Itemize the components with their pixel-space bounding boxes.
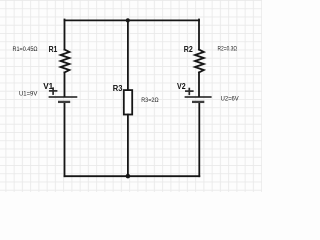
svg-text:U1=9V: U1=9V (19, 90, 38, 97)
wire middle vertical lower (127, 115, 129, 177)
wire left vertical lower (64, 103, 66, 176)
wire bottom horizontal (65, 175, 200, 177)
svg-text:R1=0.45Ω: R1=0.45Ω (13, 46, 38, 53)
svg-text:R2=0.3Ω: R2=0.3Ω (218, 45, 238, 52)
battery V2 plus sign (185, 88, 194, 95)
battery V1 (49, 97, 78, 102)
battery V2 (185, 97, 212, 102)
svg-text:V2: V2 (177, 81, 186, 91)
wire right vertical lower (198, 103, 200, 176)
resistor R3 (124, 90, 132, 114)
resistor R2 (195, 50, 204, 73)
wire R2 to V2 (198, 72, 200, 96)
wire top horizontal (65, 19, 200, 21)
svg-text:R3=2Ω: R3=2Ω (141, 97, 159, 104)
svg-text:U2=6V: U2=6V (221, 96, 240, 103)
wire R1 to V1 (64, 72, 66, 96)
svg-text:R3: R3 (113, 83, 123, 93)
battery V1 plus sign (49, 87, 58, 95)
wire left vertical upper (64, 20, 66, 50)
junction node bottom (126, 174, 131, 179)
resistor R1 (61, 50, 70, 73)
svg-text:R1: R1 (49, 44, 58, 54)
wire right vertical upper (198, 20, 200, 50)
wire middle vertical upper (127, 20, 129, 90)
junction node top (126, 18, 130, 22)
svg-text:V1: V1 (43, 81, 53, 91)
svg-text:R2: R2 (184, 44, 193, 54)
